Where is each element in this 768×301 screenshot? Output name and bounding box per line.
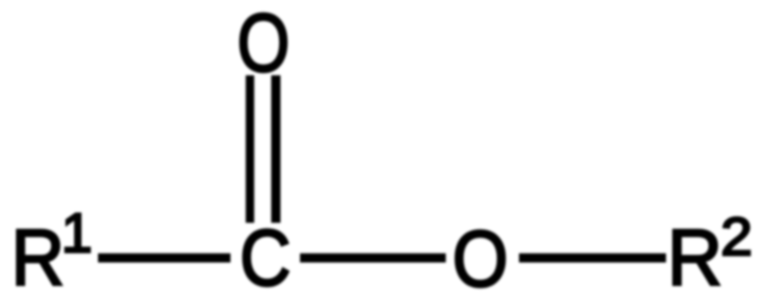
bond R1-C [98,253,231,262]
svg-text:C: C [240,213,291,301]
svg-text:R: R [11,213,65,301]
bond O-R2 [519,253,666,262]
svg-text:O: O [237,0,290,89]
svg-text:R: R [667,212,722,301]
svg-text:O: O [452,214,508,301]
double bond C=O [246,75,255,223]
svg-text:2: 2 [721,207,753,267]
svg-text:1: 1 [61,201,92,264]
bond C-O [300,253,446,262]
